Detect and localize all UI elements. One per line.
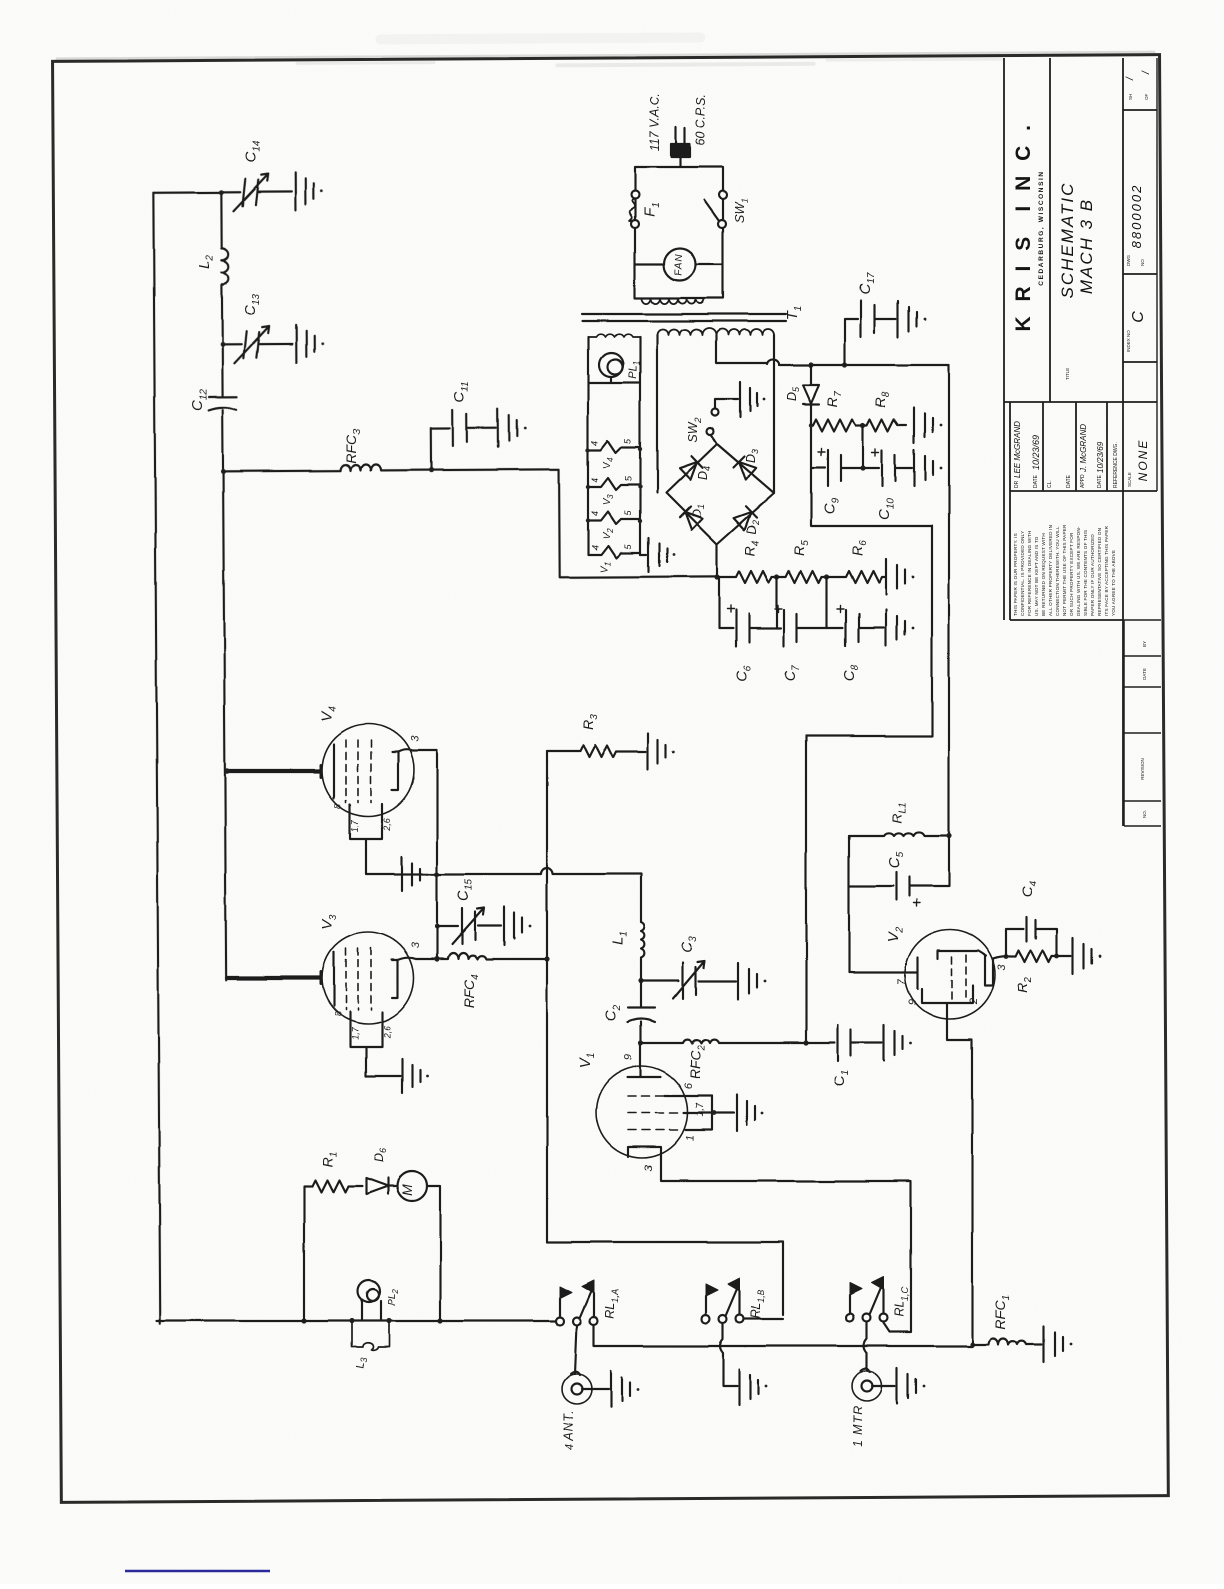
wire rail to relay RL1B (547, 1242, 783, 1315)
diode D4 (680, 456, 703, 480)
svg-text:NOT PERMIT THE USE OF THIS PAP: NOT PERMIT THE USE OF THIS PAPER (1062, 524, 1067, 616)
tube V1 bracket pins 6,1 (686, 1096, 712, 1130)
node junction RFC4/rail (544, 956, 549, 961)
node junction RFC1 (969, 1341, 974, 1346)
svg-text:SH: SH (1128, 94, 1133, 100)
wire to bridge output (559, 468, 716, 577)
svg-text:K R I S I N C .: K R I S I N C . (1012, 121, 1035, 332)
ground (RL1B) (739, 1369, 758, 1405)
svg-text:2,6: 2,6 (382, 818, 392, 832)
switch SW1 (719, 191, 727, 199)
tube V2 plate (938, 950, 986, 958)
tube V3 cathode (333, 952, 335, 1006)
ground (heater string) (640, 538, 667, 572)
RL1C right flag (883, 1290, 885, 1314)
svg-text:9: 9 (907, 999, 919, 1005)
node junction R2/C4 (1055, 954, 1060, 959)
wire V1 pins 1,7 to ground (684, 1112, 734, 1114)
tube V2 grids (dashed) (952, 954, 966, 1000)
capacitor C5 (electrolytic) (849, 836, 949, 900)
svg-text:CL.: CL. (1047, 480, 1053, 488)
ground (C17) (898, 301, 917, 337)
wire secondary left leg (656, 335, 658, 493)
capacitor C1 (to ground) (806, 1025, 882, 1061)
RL1B left flag (705, 1296, 707, 1315)
svg-text:BY: BY (1142, 641, 1147, 647)
tube V4 base bracket pins 1,7 2,6 (350, 804, 382, 874)
pilot lamp PL1 (599, 353, 623, 377)
tube V3 base bracket pins 1,7 2,6 (350, 1012, 382, 1076)
svg-text:8: 8 (333, 1011, 343, 1016)
wire center tap to B+ rail with hop (716, 335, 949, 365)
ground (R6) (886, 559, 905, 595)
node junction C3 (638, 978, 643, 983)
svg-text:9: 9 (623, 1054, 635, 1060)
ground (C1) (884, 1025, 903, 1061)
svg-text:INDEX NO: INDEX NO (1126, 330, 1131, 352)
inductor RL1 relay coil (849, 832, 949, 836)
svg-text:2,6: 2,6 (382, 1026, 392, 1040)
ground (V3 cathode) (366, 1059, 420, 1093)
capacitor C2 (series) (628, 981, 655, 1043)
node junction R1 leg/bus (301, 1318, 306, 1323)
svg-text:CONFIDENTIAL. IS PROVIDED ONLY: CONFIDENTIAL. IS PROVIDED ONLY (1020, 531, 1025, 616)
wire top-left horizontal net (153, 191, 240, 194)
smudge top edge (55, 30, 1155, 71)
resistor R3 (547, 745, 646, 757)
fan motor (635, 263, 723, 265)
svg-text:J. McGRAND: J. McGRAND (1079, 424, 1088, 473)
tube V3 plate (392, 960, 398, 998)
svg-text:7: 7 (896, 978, 908, 985)
svg-text:OF: OF (1144, 93, 1149, 100)
relay contacts RL1B (702, 1315, 710, 1323)
node junction M leg/bus (437, 1318, 442, 1323)
svg-text:SCALE: SCALE (1127, 472, 1132, 487)
wire RFC3 row (223, 470, 341, 473)
resistor R1 (312, 1180, 362, 1192)
fuse F1 (631, 191, 639, 199)
svg-text:FOR REFERENCE IN DEALING WITH: FOR REFERENCE IN DEALING WITH (1027, 531, 1032, 616)
capacitor C6 (electrolytic) (719, 610, 777, 646)
svg-text:1 MTR: 1 MTR (851, 1405, 865, 1448)
HV secondary winding (657, 328, 774, 335)
diode D1 (680, 507, 703, 530)
svg-text:2: 2 (968, 998, 980, 1005)
svg-text:US. MAY NOT BE KEPT AND IS TO: US. MAY NOT BE KEPT AND IS TO (1034, 536, 1039, 616)
resistor R8 (863, 419, 906, 431)
wire bottom bus (157, 1320, 556, 1322)
svg-text:4: 4 (590, 477, 600, 482)
svg-text:6: 6 (683, 1082, 695, 1089)
ground (1MTR) (897, 1368, 916, 1404)
capacitor C4 (1006, 917, 1057, 956)
tube V2 envelope (905, 929, 995, 1019)
svg-text:DEALING WITH US. WE ARE RESPON: DEALING WITH US. WE ARE RESPON- (1076, 526, 1081, 616)
ground (C11) (498, 409, 517, 447)
pin labels heater 4,5 (590, 439, 633, 551)
relay contacts RL1C (846, 1314, 854, 1322)
svg-text:4: 4 (590, 440, 600, 445)
svg-text:1,7: 1,7 (350, 1027, 360, 1041)
tube V3 envelope (322, 932, 414, 1024)
node junction C1/B- (803, 1040, 808, 1045)
signature table (1010, 402, 1123, 620)
wire RL1C center to 1MTR with hop (864, 1322, 867, 1371)
node junction L3 right (386, 1318, 391, 1323)
node junction C15 (434, 923, 439, 928)
wire R1 loop left leg (304, 1186, 312, 1321)
svg-text:3: 3 (996, 963, 1008, 970)
node junction C4 left (1004, 954, 1009, 959)
ground (V1 pins 1,7) (737, 1095, 755, 1131)
diode D5 (803, 365, 819, 425)
transformer T1 core (582, 314, 786, 321)
inductor RFC2 (641, 1040, 806, 1043)
svg-text:APPD: APPD (1080, 474, 1086, 488)
heater winding (T1 secondary) (588, 334, 640, 337)
tube V4 cathode (333, 744, 335, 798)
tube V2 cathode (849, 957, 918, 989)
svg-text:CEDARBURG, WISCONSIN: CEDARBURG, WISCONSIN (1038, 170, 1045, 285)
ground (C10) (914, 450, 933, 486)
resistor R6 (827, 571, 886, 583)
svg-text:LEE McGRAND: LEE McGRAND (1013, 421, 1022, 478)
svg-text:SCHEMATIC: SCHEMATIC (1058, 182, 1077, 299)
capacitor C10 (electrolytic) (863, 450, 912, 486)
wire C5 to V2 pin 7 (848, 886, 850, 972)
svg-text:117 V.A.C.: 117 V.A.C. (648, 93, 662, 152)
svg-text:3: 3 (409, 735, 421, 742)
ground (ANT) (611, 1371, 630, 1407)
wire V3 grid (bold) (227, 976, 320, 980)
wire ANT to ground (582, 1388, 609, 1390)
svg-text:TITLE: TITLE (1065, 368, 1070, 380)
svg-text:ANT.: ANT. (562, 1409, 576, 1441)
RL1B right flag (739, 1291, 741, 1315)
inductor RFC4 (437, 953, 547, 959)
svg-text:1: 1 (685, 1135, 697, 1141)
node junction C14/L2 (219, 190, 224, 195)
diode D3 (734, 457, 757, 481)
heater V3 (588, 478, 640, 490)
svg-text:SIBLE FOR THE CONTENTS OF THIS: SIBLE FOR THE CONTENTS OF THIS (1083, 530, 1088, 616)
power box (635, 167, 723, 298)
svg-text:REPRESENTATIVE SO CERTIFIED ON: REPRESENTATIVE SO CERTIFIED ON (1097, 528, 1102, 616)
switch SW2 (711, 435, 717, 444)
wire left long vertical rail (153, 193, 160, 1324)
wire divider verticals to cap row (719, 577, 827, 628)
wire V3 pin 3 (398, 958, 437, 960)
svg-text:YOU AGREE TO THE ABOVE: YOU AGREE TO THE ABOVE (1111, 550, 1116, 616)
wire heater rung PL1 (588, 382, 640, 384)
ground (R8) (914, 407, 933, 443)
svg-text:MACH 3 B: MACH 3 B (1077, 198, 1096, 294)
tube V4 envelope (322, 724, 414, 816)
blue pen mark bottom left (125, 1570, 270, 1573)
svg-text:THIS PAPER IS OUR PROPERTY. IS: THIS PAPER IS OUR PROPERTY. IS (1013, 533, 1018, 616)
ground (C13) (296, 325, 314, 363)
ground (SW2) (740, 382, 757, 417)
wire RL1B center to ground with hop (720, 1323, 737, 1386)
ground (R2) (1073, 938, 1092, 974)
RL1C left flag (849, 1295, 851, 1314)
capacitor C13 (variable, to ground) (222, 331, 292, 358)
svg-text:4: 4 (590, 511, 600, 516)
svg-text:DATE: DATE (1066, 474, 1072, 488)
svg-text:DR: DR (1014, 480, 1020, 488)
svg-text:OR SUCH PROPERTY EXCEPT FOR: OR SUCH PROPERTY EXCEPT FOR (1069, 532, 1074, 616)
RL1B armature (726, 1290, 737, 1316)
capacitor C14 (variable, to ground) (242, 179, 291, 206)
ground (R3) (648, 733, 666, 769)
svg-text:10/23/69: 10/23/69 (1031, 435, 1041, 470)
ground (RFC1) (1044, 1326, 1063, 1362)
node junction C13 (220, 342, 225, 347)
wire RL1 left leg (848, 836, 850, 886)
svg-text:BE RETURNED ON REQUEST WITH: BE RETURNED ON REQUEST WITH (1041, 533, 1046, 616)
svg-text:REVISION: REVISION (1140, 758, 1145, 780)
node junction R5/R6 (824, 574, 829, 579)
svg-text:3: 3 (410, 941, 422, 948)
node junction C17 tap (842, 362, 847, 367)
svg-text:8800002: 8800002 (1129, 184, 1144, 249)
heater V1 (588, 546, 640, 558)
svg-text:DATE: DATE (1142, 668, 1147, 680)
node junction C11 (428, 467, 433, 472)
labels heater tube names V4 V3 V2 V1 (599, 457, 615, 573)
legal text block (1013, 524, 1116, 616)
title block outline (1003, 58, 1005, 620)
capacitor C8 (electrolytic) (827, 610, 884, 646)
resistor R4 (717, 571, 777, 583)
resistor R2 (1016, 950, 1057, 962)
meter M (397, 1171, 427, 1201)
inductor RFC1 (972, 1338, 1042, 1344)
capacitor C15 (variable, to ground) (437, 908, 501, 944)
RL1A left flag (559, 1298, 561, 1317)
svg-text:REFERENCE DWG.: REFERENCE DWG. (1113, 442, 1119, 488)
heater string box rails (588, 337, 640, 555)
svg-text:1,7: 1,7 (695, 1103, 706, 1117)
wire RL1A center to ANT (575, 1325, 577, 1374)
RL1A right flag (593, 1293, 595, 1317)
capacitor C3 (variable, to ground) (641, 963, 736, 999)
ground (C14) (295, 173, 313, 211)
pilot lamp PL2 (358, 1280, 380, 1302)
wire M to right leg (427, 1186, 440, 1321)
svg-text:3: 3 (643, 1164, 655, 1171)
resistor R5 (777, 571, 827, 583)
svg-text:NO.: NO. (1142, 810, 1147, 818)
svg-text:ITS FACE BY ACCEPTING THIS PAP: ITS FACE BY ACCEPTING THIS PAPER (1104, 525, 1109, 616)
wire D5 cathode down (810, 425, 812, 468)
svg-text:8: 8 (333, 803, 343, 808)
node junction R4/R5 (774, 574, 779, 579)
capacitor C12 (series in rail) (208, 344, 237, 471)
svg-text:4: 4 (564, 1444, 576, 1450)
svg-text:M: M (399, 1184, 415, 1196)
wire V4 pin3 vertical (436, 751, 438, 959)
revision strip (1124, 620, 1161, 826)
diode D6 (366, 1178, 397, 1194)
wire V2 pin 3 (993, 956, 1016, 958)
tube V4 plate (392, 752, 398, 790)
connector ANT jack (562, 1374, 592, 1404)
wire secondary right leg (773, 335, 775, 493)
tube V1 plate line pin 6 (665, 1095, 712, 1097)
svg-text:4: 4 (590, 545, 600, 550)
inductor L3 (352, 1321, 389, 1350)
tube V1 envelope (596, 1066, 688, 1158)
svg-text:C: C (1130, 311, 1147, 323)
svg-text:60 C.P.S.: 60 C.P.S. (694, 94, 708, 146)
svg-text:CONNECTION THEREWITH. YOU WILL: CONNECTION THEREWITH. YOU WILL (1055, 526, 1060, 616)
wire V4 grid (bold) (227, 769, 320, 773)
wire B- feed routing (806, 468, 932, 1042)
svg-text:ALL OTHER PROPERTY DELIVERED I: ALL OTHER PROPERTY DELIVERED IN (1048, 525, 1053, 616)
wire rail to V3/V4 grids (223, 471, 226, 980)
RL1A armature (580, 1292, 591, 1318)
wire R2 to ground (1057, 955, 1071, 957)
svg-text:DATE: DATE (1097, 474, 1103, 488)
node junction L3 left (349, 1318, 354, 1323)
heater V4 (588, 441, 640, 453)
capacitor C11 (to ground) (431, 410, 496, 470)
transformer T1 primary winding (642, 298, 704, 304)
svg-text:NONE: NONE (1136, 439, 1150, 482)
node junction bridge output (714, 574, 719, 579)
wire R7/R8 tap down (862, 425, 864, 468)
svg-text:NO: NO (1140, 259, 1145, 266)
node junction V1 grid (638, 1040, 643, 1045)
wire V2 pins 9,2 down (922, 985, 973, 1344)
node junction RFC3 (220, 469, 225, 474)
heater V2 (588, 512, 640, 524)
node junction C9/C10 (860, 465, 865, 470)
tube V4 grids (dashed) (346, 740, 371, 802)
ground (C3) (738, 963, 757, 999)
wire V1 pin 9 grid cap (628, 1043, 661, 1077)
wire B+ rail down (948, 365, 950, 836)
wire R3 vertical rail (546, 751, 548, 1242)
node junction RFC4 (434, 956, 439, 961)
capacitor C7 (electrolytic) (777, 610, 827, 646)
tube V2 pin3 tab (985, 955, 993, 985)
inductor RFC3 (341, 463, 559, 470)
connector 1MTR jack (852, 1371, 882, 1401)
node junction V4 rail (434, 871, 439, 876)
node junction D5 (808, 362, 813, 367)
ground (V4 cathode) (366, 857, 437, 891)
svg-text:10/23/69: 10/23/69 (1096, 441, 1105, 473)
wire V4 pin 3 (398, 750, 437, 752)
wire RL1A right to lower rail (594, 1325, 972, 1346)
AC plug 117 V.A.C. (676, 127, 685, 143)
tube V1 grids (dashed) (628, 1096, 684, 1130)
ground (C8 row) (886, 610, 905, 646)
wire 1MTR to ground (872, 1385, 895, 1387)
diode D2 (734, 506, 757, 530)
inductor L2 (221, 192, 229, 344)
resistor R7 (811, 419, 863, 431)
tube V3 grids (dashed) (346, 948, 371, 1010)
RL1C armature (870, 1289, 881, 1315)
node junction RL1/B+ (946, 833, 951, 838)
capacitor C9 (electrolytic) (811, 450, 861, 486)
node junction R7/R8 (860, 422, 865, 427)
capacitor C17 (to ground) (845, 301, 896, 365)
relay contacts RL1A (556, 1317, 564, 1325)
inductor L1 (641, 922, 644, 981)
ground (C15) (504, 907, 522, 945)
svg-text:PAPER ONLY IF OUR AUTHORIZED: PAPER ONLY IF OUR AUTHORIZED (1090, 534, 1095, 616)
svg-text:FAN: FAN (674, 253, 685, 275)
wire RL1B right to rail up (744, 1318, 783, 1320)
svg-text:1,7: 1,7 (350, 819, 360, 833)
svg-text:DATE: DATE (1033, 474, 1039, 488)
wire V1 pin 3 (661, 1157, 911, 1332)
wire rail to L1 with hop (437, 868, 641, 922)
tube V1 cathode tab (628, 1147, 661, 1157)
bridge diamond wires (666, 444, 774, 544)
wire bridge bottom (716, 544, 718, 577)
svg-text:DWG: DWG (1126, 255, 1131, 266)
